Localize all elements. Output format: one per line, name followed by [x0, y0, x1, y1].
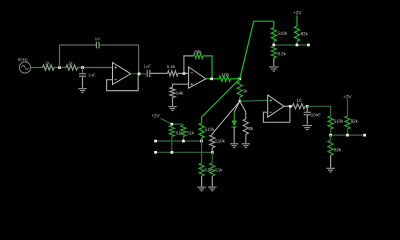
wire U3 feedback loop	[263, 107, 290, 122]
svg-text:510k: 510k	[277, 31, 287, 36]
node junction U2 inv input	[183, 72, 186, 75]
wire R7 to node B	[239, 97, 241, 101]
op-amp U2	[189, 67, 206, 88]
resistor R9 82k	[294, 26, 308, 41]
resistor R21 82k	[328, 140, 342, 155]
node endpoint output bus right	[363, 134, 366, 137]
svg-text:+2V: +2V	[151, 113, 160, 118]
svg-text:100: 100	[221, 72, 229, 77]
resistor R17 2k	[243, 116, 254, 135]
wire feedback rail down to U1 output	[138, 45, 140, 74]
wire U2 output	[206, 78, 219, 80]
wire U1 output	[131, 73, 148, 75]
node endpoint bus1 left	[154, 140, 157, 143]
wire D1 to ground	[233, 127, 235, 143]
svg-text:82k: 82k	[351, 119, 359, 124]
node junction node1	[58, 66, 61, 69]
resistor R14 510k	[210, 134, 226, 153]
wire bus1	[156, 140, 202, 142]
node endpoint bias bus right	[307, 44, 310, 47]
capacitor C3 1uF coupling	[143, 64, 151, 77]
wire R21 to ground	[330, 155, 332, 167]
wire R11 to bus2	[171, 136, 173, 152]
wire +2V to R20	[347, 100, 349, 117]
svg-text:1k: 1k	[243, 88, 248, 93]
svg-text:5.1k: 5.1k	[167, 64, 176, 69]
resistor R13 510k (highlighted)	[199, 123, 215, 141]
ground GND9	[326, 167, 334, 169]
wire U2 + input to R5	[173, 84, 189, 87]
node junction output bus mid	[346, 134, 349, 137]
ground GND1	[78, 88, 86, 90]
ground GND5	[208, 186, 216, 188]
svg-text:8.2k: 8.2k	[277, 51, 286, 56]
wire U3 output	[284, 105, 292, 107]
resistor R5 54k	[170, 87, 184, 97]
wire node B to U3 + input	[240, 99, 268, 102]
node junction U3 output	[289, 105, 292, 108]
node junction B	[239, 100, 242, 103]
wire C3 to R3	[151, 72, 168, 74]
ground GND6	[230, 143, 238, 145]
node junction C	[306, 105, 309, 108]
wire V1 to R1	[31, 67, 43, 69]
svg-text:1nF: 1nF	[94, 37, 101, 41]
diode D1	[231, 112, 237, 127]
svg-text:2k: 2k	[249, 126, 254, 131]
op-amp U1	[113, 63, 131, 85]
wire +2V to R9	[296, 16, 298, 27]
wire R3 to U2 - input	[178, 72, 189, 74]
resistor R19 510k	[328, 116, 344, 129]
resistor R10 8.2k	[271, 46, 286, 58]
source V1 60Hz	[17, 57, 30, 73]
wire node C to output cluster	[307, 106, 330, 116]
wire node B to diode D1	[234, 101, 240, 112]
wire R16 to ground	[211, 176, 213, 186]
wire inv node up to R4	[184, 56, 194, 74]
capacitor C4 10nF	[304, 106, 321, 124]
resistor R2 1k	[66, 61, 78, 71]
node junction output bus left	[329, 134, 332, 137]
resistor R16 51k	[210, 163, 223, 176]
svg-text:82k: 82k	[334, 147, 342, 152]
node junction U1 output	[138, 73, 141, 76]
wire node A diagonal down to R13 (highlighted)	[202, 79, 240, 123]
svg-text:51k: 51k	[215, 167, 223, 172]
resistor R3 5.1k	[167, 64, 178, 76]
resistor R15 51k	[199, 163, 212, 176]
op-amp U3	[268, 95, 284, 117]
node junction node2	[81, 66, 84, 69]
svg-text:56k: 56k	[194, 49, 202, 54]
ground GND2	[168, 106, 176, 108]
wire R6 to node A	[231, 78, 240, 80]
wire feedback rail right segment	[99, 44, 138, 46]
wire R17 to ground	[245, 135, 247, 144]
wire node1 up to feedback rail	[59, 45, 61, 68]
capacitor C1 1nF shunt	[79, 68, 96, 88]
node junction A	[239, 78, 242, 81]
svg-text:82k: 82k	[301, 31, 309, 36]
wire R10 to ground	[273, 58, 275, 66]
node junction bus1 R13	[200, 140, 203, 143]
svg-text:10: 10	[296, 98, 301, 103]
node junction U2 output	[210, 78, 213, 81]
resistor R20 82k	[345, 116, 359, 129]
node junction bus2 R11	[171, 151, 174, 154]
wire bus2	[156, 151, 213, 153]
resistor R12 51k	[181, 125, 195, 136]
wire feedback rail left segment	[60, 44, 97, 46]
node junction bias bus left	[272, 44, 275, 47]
resistor R18 10	[292, 98, 305, 109]
wire node B to R17	[240, 101, 246, 116]
resistor R8 510k	[271, 21, 288, 41]
resistor R7 1k below node A	[237, 82, 248, 97]
wire node B diagonal to R14	[212, 101, 240, 134]
ground GND7	[242, 143, 250, 145]
wire R5 to ground	[172, 98, 174, 107]
wire R12 to bus1	[182, 136, 184, 141]
node junction bus2 R14	[211, 151, 214, 154]
node junction bus1 R12	[182, 140, 185, 143]
svg-text:1k: 1k	[68, 61, 74, 66]
wire node A diagonal up to R8 (highlighted)	[240, 21, 274, 79]
svg-text:1k: 1k	[45, 61, 51, 66]
svg-text:510k: 510k	[334, 119, 344, 124]
resistor R11 51k	[169, 125, 183, 136]
ground GND3	[269, 66, 279, 68]
ground GND8	[303, 125, 313, 127]
svg-text:510k: 510k	[205, 127, 215, 132]
ground GND4	[197, 186, 205, 188]
svg-text:1nF: 1nF	[88, 73, 96, 78]
svg-text:60Hz: 60Hz	[17, 57, 28, 62]
wire R2 to op-amp U1 + input	[78, 67, 113, 69]
svg-text:54k: 54k	[176, 91, 184, 96]
wire bus2 down to R16	[211, 152, 213, 163]
wire +2V diagonal to 51k pair	[161, 118, 184, 124]
svg-text:+2V: +2V	[343, 94, 352, 99]
wire R13 column through bus2 down to R15	[201, 141, 203, 163]
node junction 51k pair top	[171, 123, 174, 126]
svg-text:1uF: 1uF	[143, 64, 151, 69]
resistor R4 56k feedback	[193, 49, 203, 58]
node endpoint bus2 left	[154, 151, 157, 154]
wire R18 to node C	[305, 105, 307, 107]
svg-text:10nF: 10nF	[311, 112, 321, 117]
resistor R6 100 (highlighted)	[219, 72, 231, 81]
svg-text:510k: 510k	[215, 139, 225, 144]
capacitor C2 1nF feedback	[94, 37, 101, 48]
node junction bias bus mid	[296, 44, 299, 47]
wire output bus	[330, 129, 332, 135]
svg-text:+2V: +2V	[293, 10, 302, 15]
wire R15 to ground	[201, 176, 203, 186]
wire U1 feedback to - input	[107, 75, 139, 91]
svg-text:51k: 51k	[187, 130, 195, 135]
wire R1 to node1	[54, 67, 66, 69]
wire R4 to U2 output (highlighted)	[203, 56, 212, 79]
resistor R1 1k	[43, 61, 55, 71]
wire bias bus	[274, 44, 309, 46]
